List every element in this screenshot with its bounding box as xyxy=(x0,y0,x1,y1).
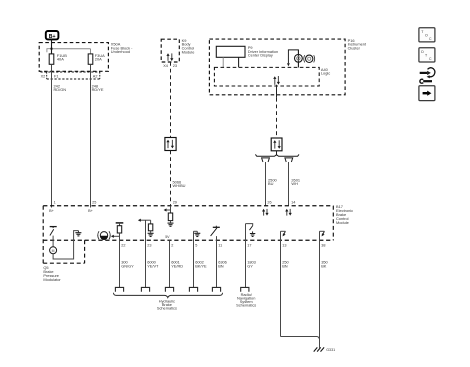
svg-text:X4: X4 xyxy=(163,64,168,68)
svg-text:13: 13 xyxy=(282,243,286,247)
svg-text:RD/YE: RD/YE xyxy=(92,87,104,92)
svg-text:BU: BU xyxy=(268,181,274,186)
svg-text:Logic: Logic xyxy=(321,71,330,76)
svg-text:GY: GY xyxy=(247,263,253,268)
svg-text:23: 23 xyxy=(173,64,177,68)
svg-text:Schematics: Schematics xyxy=(236,303,256,308)
svg-text:B+: B+ xyxy=(49,209,55,213)
svg-text:11: 11 xyxy=(218,243,222,247)
svg-text:Center Display: Center Display xyxy=(248,54,273,58)
svg-text:YE/VT: YE/VT xyxy=(147,263,159,268)
svg-text:40A: 40A xyxy=(57,57,64,62)
svg-text:5V: 5V xyxy=(165,235,170,239)
svg-text:23: 23 xyxy=(147,243,151,247)
svg-text:22: 22 xyxy=(121,243,125,247)
svg-text:G331: G331 xyxy=(326,348,335,352)
svg-text:A2: A2 xyxy=(93,74,98,78)
svg-text:YE/RD: YE/RD xyxy=(171,263,183,268)
svg-text:RD/GN: RD/GN xyxy=(54,87,67,92)
svg-text:BK/YE: BK/YE xyxy=(195,263,207,268)
svg-text:26: 26 xyxy=(267,201,271,205)
svg-text:Module: Module xyxy=(182,49,195,54)
svg-text:B+: B+ xyxy=(49,34,56,40)
svg-text:2: 2 xyxy=(171,243,173,247)
svg-text:14: 14 xyxy=(291,201,295,205)
svg-text:F1: F1 xyxy=(54,74,58,78)
svg-text:1: 1 xyxy=(54,201,56,205)
svg-text:Cluster: Cluster xyxy=(348,46,361,51)
svg-text:BK: BK xyxy=(321,263,327,268)
svg-text:WH: WH xyxy=(291,181,298,186)
svg-text:17: 17 xyxy=(247,243,251,247)
svg-text:29: 29 xyxy=(173,201,177,205)
svg-text:X2: X2 xyxy=(41,74,46,78)
svg-text:5: 5 xyxy=(195,243,197,247)
svg-text:Underhood: Underhood xyxy=(111,49,130,54)
svg-text:WH/BU: WH/BU xyxy=(173,183,186,188)
svg-text:GN/GY: GN/GY xyxy=(121,263,134,268)
svg-text:O: O xyxy=(425,34,428,38)
svg-text:Modulator: Modulator xyxy=(43,277,61,282)
svg-text:38: 38 xyxy=(321,243,325,247)
svg-text:20A: 20A xyxy=(95,57,102,62)
svg-text:B+: B+ xyxy=(88,209,94,213)
svg-text:M: M xyxy=(52,249,55,253)
svg-text:25: 25 xyxy=(92,201,96,205)
svg-text:BN: BN xyxy=(282,263,288,268)
svg-text:Schematics: Schematics xyxy=(157,306,177,311)
svg-text:BN: BN xyxy=(218,263,224,268)
svg-text:Module: Module xyxy=(336,220,349,225)
